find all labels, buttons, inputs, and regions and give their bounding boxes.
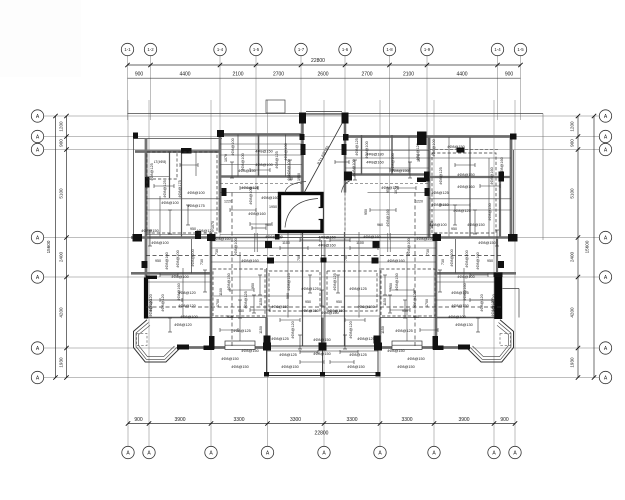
svg-text:4Φ8@100: 4Φ8@100	[171, 275, 188, 279]
svg-text:4Φ8@200: 4Φ8@200	[191, 249, 195, 266]
svg-text:4Φ8@100: 4Φ8@100	[187, 191, 204, 195]
svg-text:950: 950	[413, 315, 419, 319]
svg-text:1220: 1220	[415, 200, 423, 204]
svg-text:2600: 2600	[317, 72, 328, 78]
svg-text:4Φ8@150: 4Φ8@150	[488, 203, 492, 220]
dashed beam zones	[146, 152, 502, 347]
rebar labels	[141, 138, 504, 369]
svg-text:4200: 4200	[59, 307, 64, 318]
svg-text:1950: 1950	[269, 205, 277, 209]
svg-text:4Φ8@150: 4Φ8@150	[271, 305, 288, 309]
svg-text:1200: 1200	[59, 121, 64, 132]
svg-text:4Φ8@175: 4Φ8@175	[178, 180, 182, 197]
svg-text:4Φ8@100: 4Φ8@100	[255, 163, 272, 167]
svg-text:4Φ8@125: 4Φ8@125	[233, 329, 250, 333]
svg-text:4Φ8@200: 4Φ8@200	[176, 250, 180, 267]
svg-text:4Φ8@100: 4Φ8@100	[284, 143, 288, 160]
svg-text:4Φ8@100: 4Φ8@100	[231, 138, 235, 155]
svg-text:1-9: 1-9	[424, 47, 431, 52]
svg-text:4Φ8@125: 4Φ8@125	[381, 186, 398, 190]
svg-text:LT(4Φ8): LT(4Φ8)	[154, 160, 166, 164]
svg-text:4Φ8@150: 4Φ8@150	[397, 365, 414, 369]
svg-text:22800: 22800	[315, 431, 329, 437]
svg-text:700: 700	[344, 255, 348, 261]
svg-text:950: 950	[364, 209, 368, 215]
svg-text:4Φ8@150: 4Φ8@150	[347, 365, 364, 369]
svg-text:1070: 1070	[211, 221, 215, 229]
svg-text:4Φ8@120: 4Φ8@120	[291, 321, 295, 338]
svg-text:1070: 1070	[224, 154, 228, 162]
left axis bubbles	[31, 110, 43, 384]
svg-text:950: 950	[190, 227, 196, 231]
svg-text:730: 730	[200, 259, 204, 265]
svg-text:1700: 1700	[425, 299, 429, 307]
right outline line	[542, 114, 544, 241]
elevator core	[280, 194, 323, 232]
bay window SE	[468, 320, 514, 362]
svg-text:4Φ8@160: 4Φ8@160	[457, 185, 474, 189]
svg-text:730: 730	[215, 249, 219, 255]
svg-text:900: 900	[286, 293, 290, 299]
svg-text:4Φ8@200: 4Φ8@200	[450, 249, 454, 266]
svg-text:1-4: 1-4	[494, 47, 501, 52]
svg-text:900: 900	[135, 72, 144, 78]
columns	[133, 113, 518, 377]
svg-text:1-7: 1-7	[298, 47, 305, 52]
svg-text:4Φ8@150: 4Φ8@150	[241, 349, 258, 353]
svg-text:1150: 1150	[381, 326, 385, 334]
svg-text:4Φ8@100: 4Φ8@100	[161, 201, 178, 205]
svg-text:950: 950	[336, 300, 342, 304]
svg-text:4Φ8@150: 4Φ8@150	[327, 309, 344, 313]
svg-text:1-5: 1-5	[517, 47, 524, 52]
svg-text:2700: 2700	[273, 72, 284, 78]
stair diagonal	[285, 117, 350, 193]
svg-text:1100: 1100	[219, 288, 223, 296]
svg-text:4Φ8@150: 4Φ8@150	[467, 223, 484, 227]
svg-text:950: 950	[238, 309, 244, 313]
svg-text:4Φ8@160: 4Φ8@160	[248, 212, 265, 216]
svg-text:4Φ8@125: 4Φ8@125	[333, 273, 337, 290]
svg-text:4Φ8@150: 4Φ8@150	[227, 273, 231, 290]
svg-text:4Φ8@160: 4Φ8@160	[500, 157, 504, 174]
top axis bubbles	[121, 43, 526, 55]
svg-text:4Φ8@120: 4Φ8@120	[174, 323, 191, 327]
svg-text:4Φ8@125: 4Φ8@125	[275, 151, 279, 168]
svg-text:4Φ8@125: 4Φ8@125	[196, 229, 213, 233]
svg-text:4Φ8@100: 4Φ8@100	[180, 315, 197, 319]
svg-text:1070: 1070	[430, 221, 434, 229]
svg-text:4Φ8@100: 4Φ8@100	[476, 252, 480, 269]
svg-text:4Φ8@160: 4Φ8@160	[416, 237, 433, 241]
svg-text:4Φ8@150: 4Φ8@150	[281, 365, 298, 369]
svg-text:4Φ8@125: 4Φ8@125	[395, 329, 412, 333]
svg-text:4Φ8@100: 4Φ8@100	[234, 238, 238, 255]
svg-text:950: 950	[251, 283, 255, 289]
svg-text:4Φ8@160: 4Φ8@160	[386, 209, 390, 226]
svg-text:4Φ8@160: 4Φ8@160	[261, 196, 278, 200]
svg-text:950: 950	[487, 259, 493, 263]
svg-text:4Φ8@125: 4Φ8@125	[453, 209, 470, 213]
svg-text:3300: 3300	[346, 417, 357, 423]
svg-text:1150: 1150	[383, 298, 387, 306]
svg-text:4Φ8@160: 4Φ8@160	[490, 167, 494, 184]
svg-text:1700: 1700	[216, 299, 220, 307]
svg-text:4Φ8@150: 4Φ8@150	[231, 365, 248, 369]
svg-text:4Φ8@120: 4Φ8@120	[149, 299, 153, 316]
svg-text:4Φ8@125: 4Φ8@125	[150, 163, 154, 180]
svg-text:4Φ8@160: 4Φ8@160	[177, 283, 181, 300]
svg-text:960: 960	[377, 223, 383, 227]
svg-text:4Φ8@100: 4Φ8@100	[352, 159, 356, 176]
left dimension chain	[46, 114, 69, 380]
svg-text:4Φ8@160: 4Φ8@160	[318, 244, 335, 248]
svg-text:4Φ8@150: 4Φ8@150	[478, 241, 495, 245]
svg-text:950: 950	[305, 300, 311, 304]
svg-text:4Φ8@100: 4Φ8@100	[448, 315, 465, 319]
svg-text:4Φ8@130: 4Φ8@130	[455, 323, 472, 327]
svg-text:4Φ8@150: 4Φ8@150	[255, 150, 272, 154]
svg-text:700: 700	[297, 255, 301, 261]
svg-text:3300: 3300	[401, 417, 412, 423]
svg-text:730: 730	[441, 259, 445, 265]
svg-text:4Φ8@150: 4Φ8@150	[395, 273, 399, 290]
svg-text:5100: 5100	[570, 188, 575, 199]
svg-text:730: 730	[426, 249, 430, 255]
svg-text:4Φ8@125: 4Φ8@125	[357, 337, 374, 341]
building walls	[131, 112, 519, 352]
svg-text:2100: 2100	[232, 72, 243, 78]
bottom dimension chain	[126, 417, 517, 437]
top dimension chain	[125, 58, 522, 78]
svg-text:4Φ8@120: 4Φ8@120	[349, 321, 353, 338]
svg-text:4Φ8@100: 4Φ8@100	[287, 159, 291, 176]
svg-text:4400: 4400	[179, 72, 190, 78]
bottom balcony	[267, 346, 379, 376]
svg-text:900: 900	[500, 417, 509, 423]
svg-text:1150: 1150	[259, 298, 263, 306]
svg-text:1950: 1950	[297, 173, 301, 181]
svg-text:2400: 2400	[59, 251, 64, 262]
bay window SW	[134, 320, 180, 362]
svg-text:950: 950	[451, 227, 457, 231]
svg-text:4Φ8@100: 4Φ8@100	[432, 139, 436, 156]
svg-text:1070: 1070	[417, 154, 421, 162]
svg-text:4Φ8@125: 4Φ8@125	[287, 273, 291, 290]
svg-text:4Φ8@100: 4Φ8@100	[165, 252, 169, 269]
svg-text:1-4: 1-4	[217, 47, 224, 52]
svg-text:4Φ8@150: 4Φ8@150	[457, 173, 474, 177]
svg-text:1100: 1100	[356, 241, 364, 245]
svg-text:4Φ8@125: 4Φ8@125	[431, 191, 448, 195]
svg-text:4Φ8@150: 4Φ8@150	[301, 309, 318, 313]
svg-text:4200: 4200	[570, 307, 575, 318]
svg-text:4Φ8@150: 4Φ8@150	[451, 304, 468, 308]
svg-text:3900: 3900	[174, 417, 185, 423]
right axis bubbles	[599, 110, 611, 384]
svg-text:4Φ8@160: 4Φ8@160	[265, 235, 282, 239]
svg-text:1100: 1100	[282, 241, 290, 245]
svg-text:4Φ8@125: 4Φ8@125	[349, 287, 366, 291]
svg-text:4Φ8@160: 4Φ8@160	[241, 259, 258, 263]
svg-text:950: 950	[227, 315, 233, 319]
svg-text:4Φ8@160: 4Φ8@160	[318, 236, 335, 240]
svg-text:1150: 1150	[259, 326, 263, 334]
svg-text:1930: 1930	[59, 357, 64, 368]
svg-text:4Φ8@125: 4Φ8@125	[355, 138, 359, 155]
svg-text:15600: 15600	[585, 240, 590, 253]
svg-text:4Φ8@150: 4Φ8@150	[447, 145, 464, 149]
svg-text:4Φ8@125: 4Φ8@125	[244, 291, 248, 308]
svg-text:4Φ8@150: 4Φ8@150	[313, 338, 330, 342]
bottom axis bubbles	[122, 446, 521, 458]
svg-text:4Φ8@150: 4Φ8@150	[221, 357, 238, 361]
svg-text:1-2: 1-2	[147, 47, 154, 52]
svg-text:4Φ8@125: 4Φ8@125	[279, 353, 296, 357]
svg-text:2100: 2100	[403, 72, 414, 78]
svg-text:4Φ8@125: 4Φ8@125	[439, 167, 443, 184]
svg-text:4Φ8@150: 4Φ8@150	[238, 169, 255, 173]
roof box	[266, 100, 285, 113]
svg-text:3300: 3300	[290, 417, 301, 423]
svg-text:15600: 15600	[46, 240, 51, 253]
svg-text:4Φ8@150: 4Φ8@150	[357, 305, 374, 309]
svg-text:1-6: 1-6	[342, 47, 349, 52]
roof outline line	[128, 113, 544, 115]
svg-text:950: 950	[155, 259, 161, 263]
svg-text:4Φ8@120: 4Φ8@120	[161, 294, 165, 311]
svg-text:4Φ8@160: 4Φ8@160	[463, 283, 467, 300]
svg-text:900: 900	[570, 139, 575, 147]
svg-text:1-8: 1-8	[386, 47, 393, 52]
svg-text:4Φ8@200: 4Φ8@200	[465, 250, 469, 267]
svg-text:4Φ8@160: 4Φ8@160	[363, 235, 380, 239]
svg-text:3300: 3300	[233, 417, 244, 423]
svg-text:900: 900	[59, 139, 64, 147]
svg-text:4Φ8@175: 4Φ8@175	[187, 204, 204, 208]
svg-text:4Φ8@125: 4Φ8@125	[163, 180, 167, 197]
svg-text:2700: 2700	[361, 72, 372, 78]
svg-text:2400: 2400	[570, 251, 575, 262]
svg-text:950: 950	[278, 209, 282, 215]
svg-text:4Φ8@150: 4Φ8@150	[313, 352, 330, 356]
svg-text:4Φ8@100: 4Φ8@100	[457, 275, 474, 279]
svg-text:4Φ8@160: 4Φ8@160	[366, 161, 383, 165]
svg-text:1-1: 1-1	[124, 47, 131, 52]
svg-text:1930: 1930	[570, 357, 575, 368]
svg-text:4Φ8@125: 4Φ8@125	[271, 337, 288, 341]
svg-text:4Φ8@120: 4Φ8@120	[491, 299, 495, 316]
svg-text:4Φ8@150: 4Φ8@150	[387, 349, 404, 353]
svg-text:1-5: 1-5	[253, 47, 260, 52]
svg-text:4Φ8@150: 4Φ8@150	[391, 169, 408, 173]
svg-text:4Φ8@160: 4Φ8@160	[213, 237, 230, 241]
grid lines	[44, 56, 599, 446]
svg-text:1220: 1220	[224, 200, 232, 204]
svg-text:900: 900	[505, 72, 514, 78]
svg-text:4Φ8@120: 4Φ8@120	[480, 294, 484, 311]
right dimension chain	[570, 114, 597, 380]
svg-text:950: 950	[389, 283, 393, 289]
svg-text:4Φ8@100: 4Φ8@100	[407, 238, 411, 255]
svg-text:4Φ8@150: 4Φ8@150	[407, 357, 424, 361]
svg-text:4Φ8@180: 4Φ8@180	[366, 153, 383, 157]
svg-text:22800: 22800	[311, 58, 325, 64]
rebar mark segments	[148, 160, 500, 364]
svg-text:4400: 4400	[456, 72, 467, 78]
svg-text:900: 900	[134, 417, 143, 423]
svg-text:4Φ8@125: 4Φ8@125	[413, 291, 417, 308]
svg-text:5100: 5100	[59, 188, 64, 199]
svg-text:4Φ8@120: 4Φ8@120	[178, 304, 195, 308]
svg-text:1200: 1200	[570, 121, 575, 132]
svg-text:4Φ8@100: 4Φ8@100	[151, 241, 168, 245]
svg-text:3900: 3900	[458, 417, 469, 423]
svg-text:4Φ8@160: 4Φ8@160	[387, 259, 404, 263]
